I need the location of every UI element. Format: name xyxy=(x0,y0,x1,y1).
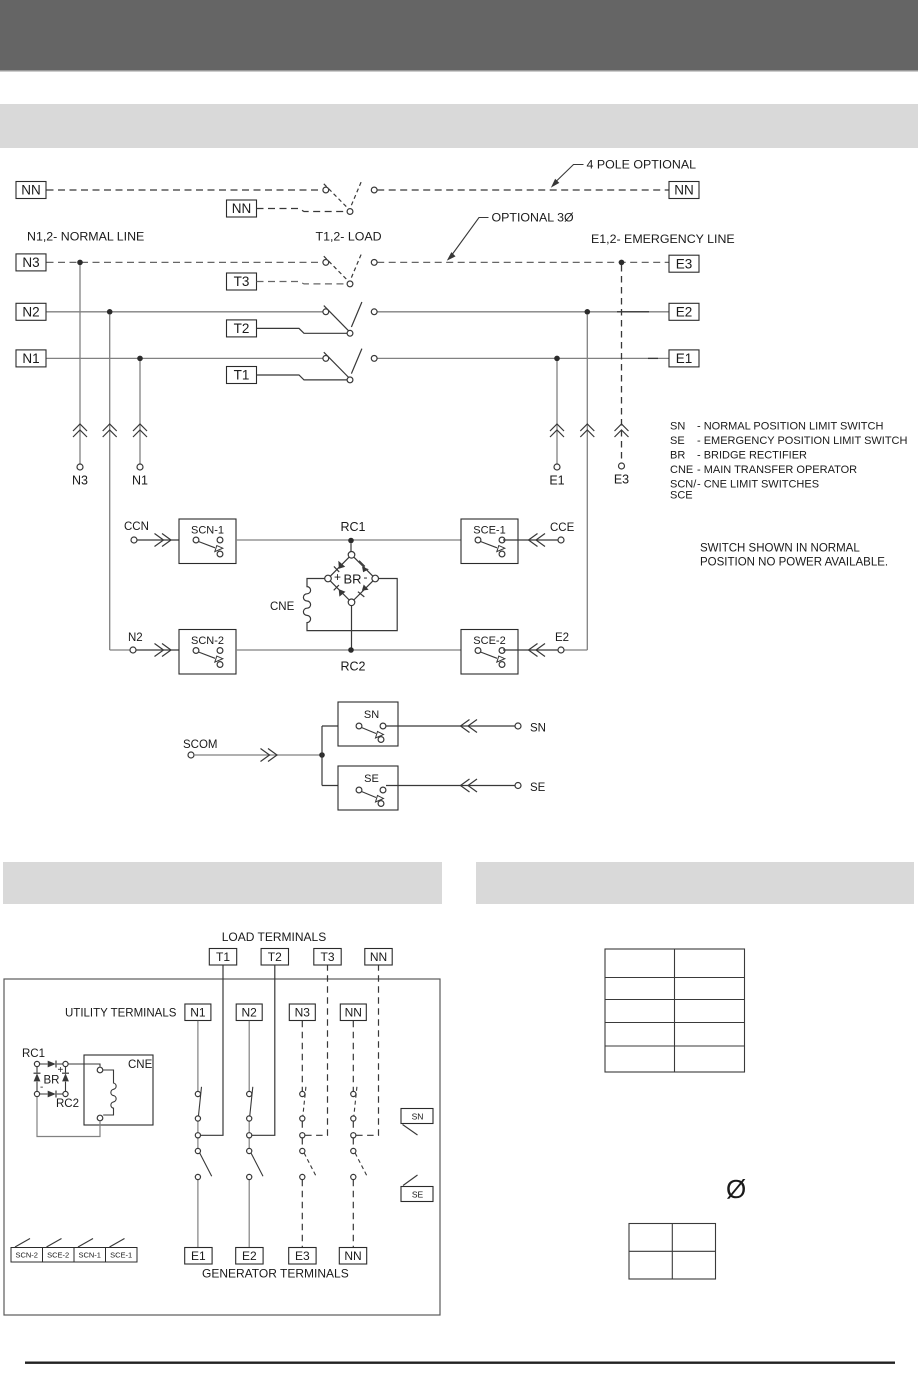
switch pole N2: blade xyxy=(324,306,349,332)
svg-text:NN: NN xyxy=(232,201,252,216)
svg-text:N2: N2 xyxy=(128,632,143,644)
svg-text:Ø: Ø xyxy=(726,1174,746,1204)
svg-text:E2: E2 xyxy=(242,1249,257,1263)
svg-text:RC2: RC2 xyxy=(340,660,365,674)
wire N2 load branch xyxy=(252,965,275,1135)
switch pole NN: blade xyxy=(324,184,349,210)
svg-text:NN: NN xyxy=(370,950,387,964)
svg-text:- MAIN TRANSFER OPERATOR: - MAIN TRANSFER OPERATOR xyxy=(697,464,857,476)
wire RC2 bus xyxy=(236,649,461,651)
leader OPTIONAL 3-phase xyxy=(448,211,574,260)
wire N1 utility drop xyxy=(197,1021,199,1091)
terminal NN (load) xyxy=(227,200,257,217)
svg-text:GENERATOR TERMINALS: GENERATOR TERMINALS xyxy=(202,1267,349,1281)
contact blade NN lower xyxy=(355,1153,367,1176)
contacts N2 xyxy=(247,1091,252,1179)
svg-text:E1: E1 xyxy=(191,1249,206,1263)
arrow N2 rail xyxy=(103,424,117,437)
terminal N2 utility xyxy=(236,1004,262,1021)
arrow SN xyxy=(461,720,478,733)
wire N3 load branch xyxy=(305,965,327,1135)
wire SCE-1 to CCE xyxy=(503,539,558,541)
svg-text:NN: NN xyxy=(674,183,694,198)
switch pole N2: moving contact xyxy=(347,330,353,336)
terminal T2 load xyxy=(261,949,288,966)
wire N2 utility drop xyxy=(248,1021,250,1091)
wire SE out xyxy=(386,785,515,787)
switch pole NN: fixed contact right xyxy=(371,187,377,193)
switch pole NN: moving contact xyxy=(347,209,353,215)
node N2 control terminal xyxy=(130,647,136,653)
node SCOM junction xyxy=(319,752,325,758)
terminal E2 (right N2 line) xyxy=(669,303,699,320)
wire T1 to moving contact xyxy=(257,375,348,380)
svg-text:SCE-2: SCE-2 xyxy=(47,1251,69,1260)
switch pole N2: fixed contact right xyxy=(371,309,377,315)
wire NN line right xyxy=(377,189,669,191)
node N1 terminal xyxy=(137,464,143,470)
svg-text:RC1: RC1 xyxy=(340,520,365,534)
node RC2 tap xyxy=(348,647,354,653)
terminal N2 (left N2 line) xyxy=(16,303,46,320)
node RC1 tap xyxy=(348,538,354,544)
arrow CCN xyxy=(155,534,172,547)
wire N2 segment xyxy=(248,1121,250,1148)
svg-text:CNE: CNE xyxy=(128,1059,153,1071)
node E1 terminal xyxy=(554,464,560,470)
wire SCOM xyxy=(194,754,322,756)
arrow N2 control xyxy=(155,644,172,657)
svg-text:SCE-2: SCE-2 xyxy=(473,635,505,647)
wire N2 line right xyxy=(377,311,669,313)
terminal T3 load xyxy=(314,949,341,966)
svg-text:SN: SN xyxy=(530,723,546,735)
legend text xyxy=(670,421,908,502)
svg-text:CNE: CNE xyxy=(270,601,295,613)
terminal N3 utility xyxy=(289,1004,315,1021)
node N3 tap xyxy=(77,260,83,266)
arrow E2 rail xyxy=(580,424,594,437)
switch pole N3: open blade slash xyxy=(351,253,362,278)
svg-text:T2: T2 xyxy=(234,321,250,336)
svg-text:T3: T3 xyxy=(234,274,250,289)
note switch shown in normal position xyxy=(700,543,888,569)
terminal E3 (right N3 line) xyxy=(669,255,699,272)
contact blade N2 lower xyxy=(251,1153,263,1176)
switch pole N2: fixed contact left xyxy=(323,309,329,315)
node SN terminal xyxy=(515,723,521,729)
svg-text:SE: SE xyxy=(412,1190,424,1200)
switch pole N1: fixed contact right xyxy=(371,356,377,362)
wire N3 line right xyxy=(377,261,669,263)
wire RC1 bus xyxy=(236,539,461,541)
contact blade NN upper xyxy=(354,1087,357,1116)
limit switch SE xyxy=(338,766,398,810)
svg-text:N1: N1 xyxy=(22,351,39,366)
svg-text:+: + xyxy=(334,570,341,584)
wire NN generator drop xyxy=(352,1180,354,1248)
svg-text:N3: N3 xyxy=(295,1005,311,1019)
svg-text:NN: NN xyxy=(345,1005,362,1019)
wire E1 dark segment xyxy=(648,357,658,359)
terminal E3 generator xyxy=(289,1248,316,1265)
limit switch SCN-2 contact (wiring view) xyxy=(11,1239,43,1263)
wire N1 feeder xyxy=(139,361,141,464)
wire SCE-2 to E2 xyxy=(503,649,558,651)
wire SCOM to SN/SE xyxy=(322,726,356,786)
switch pole N2: open blade slash xyxy=(351,302,362,327)
arrow E1 feeder xyxy=(550,424,564,437)
wire NN utility drop xyxy=(352,1021,354,1091)
contact blade N1 upper xyxy=(199,1087,202,1116)
node N2 tap xyxy=(107,309,113,315)
wire N1 segment xyxy=(197,1121,199,1148)
limit switch SCE-2 contact (wiring view) xyxy=(43,1239,75,1263)
limit switch SCE-1 xyxy=(461,519,518,564)
contact blade N3 lower xyxy=(304,1153,316,1176)
svg-text:SE: SE xyxy=(530,782,546,794)
coil CNE xyxy=(270,579,397,631)
limit switch SCN-2 xyxy=(179,630,236,675)
node CCN terminal xyxy=(131,537,137,543)
terminal E1 (right N1 line) xyxy=(669,350,699,367)
svg-text:-: - xyxy=(40,1082,43,1093)
wire N2 generator drop xyxy=(248,1180,250,1248)
terminal T1 load xyxy=(209,949,236,966)
node E2 control terminal xyxy=(558,647,564,653)
svg-text:T3: T3 xyxy=(320,950,334,964)
svg-text:N2: N2 xyxy=(242,1005,258,1019)
switch pole NN: fixed contact left xyxy=(323,187,329,193)
terminal NN (right NN line) xyxy=(669,182,699,199)
svg-text:N1: N1 xyxy=(132,474,148,488)
svg-text:SN: SN xyxy=(364,709,379,721)
node SCOM terminal xyxy=(188,752,194,758)
wire NN line left xyxy=(47,189,323,191)
wire N3 segment xyxy=(301,1121,303,1148)
svg-text:OPTIONAL 3Ø: OPTIONAL 3Ø xyxy=(492,211,575,225)
svg-text:NN: NN xyxy=(21,183,41,198)
svg-text:E3: E3 xyxy=(614,473,629,487)
bridge rectifier BR (wiring view) xyxy=(22,1048,79,1110)
contacts NN xyxy=(351,1091,356,1179)
leader 4 POLE OPTIONAL xyxy=(552,158,696,187)
wire E2 dark segment xyxy=(617,311,649,313)
table (5 rows) xyxy=(605,949,745,1072)
svg-text:BR: BR xyxy=(44,1075,60,1087)
wire T3 to moving contact xyxy=(257,282,348,284)
arrow CCE xyxy=(529,534,546,547)
svg-text:N3: N3 xyxy=(72,474,88,488)
terminal N1 utility xyxy=(185,1004,211,1021)
svg-text:T1: T1 xyxy=(234,368,250,383)
wire T2 to moving contact xyxy=(257,328,348,333)
contact blade N1 lower xyxy=(200,1153,212,1176)
terminal NN (left NN line) xyxy=(16,182,46,199)
wire N1 line right xyxy=(377,357,669,359)
wire SN out xyxy=(386,725,515,727)
limit switch SCE-2 xyxy=(461,630,518,675)
wire NN to moving contact xyxy=(257,209,348,212)
svg-text:T1: T1 xyxy=(216,950,230,964)
terminal NN load xyxy=(365,949,392,966)
contacts N3 xyxy=(300,1091,305,1179)
node N3 terminal xyxy=(77,464,83,470)
svg-text:SCN-2: SCN-2 xyxy=(15,1251,38,1260)
svg-text:- EMERGENCY POSITION LIMIT SWI: - EMERGENCY POSITION LIMIT SWITCH xyxy=(697,435,908,447)
switch pole N3: moving contact xyxy=(347,281,353,287)
terminal NN generator xyxy=(339,1248,366,1265)
node E3 tap xyxy=(619,260,625,266)
svg-text:N2: N2 xyxy=(22,305,39,320)
svg-text:T1,2- LOAD: T1,2- LOAD xyxy=(316,230,382,244)
arrow N3 feeder xyxy=(73,424,87,437)
enclosure outline xyxy=(4,979,440,1315)
svg-text:E2: E2 xyxy=(555,632,569,644)
wire N1 generator drop xyxy=(197,1180,199,1248)
svg-text:-: - xyxy=(364,570,368,584)
node SE terminal xyxy=(515,783,521,789)
wire E1 feeder xyxy=(556,361,558,464)
limit switch SCN-1 contact (wiring view) xyxy=(74,1239,106,1263)
node CCE terminal xyxy=(558,537,564,543)
svg-text:- BRIDGE RECTIFIER: - BRIDGE RECTIFIER xyxy=(697,450,807,462)
svg-text:SCN-1: SCN-1 xyxy=(191,525,224,537)
bridge rectifier BR xyxy=(325,552,379,606)
wire N3 line left xyxy=(47,261,323,263)
terminal T3 (load) xyxy=(227,273,257,290)
node E2 tap xyxy=(585,309,591,315)
contacts N1 xyxy=(195,1091,200,1179)
wire N2 to SCN-2 xyxy=(136,649,196,651)
limit switch SN (wiring view) xyxy=(401,1109,433,1136)
svg-text:SE: SE xyxy=(670,435,685,447)
terminal T2 (load) xyxy=(227,320,257,337)
svg-text:CCN: CCN xyxy=(124,521,149,533)
switch pole N1: moving contact xyxy=(347,377,353,383)
wire N2 line left xyxy=(47,311,323,313)
svg-text:BR: BR xyxy=(343,572,361,587)
svg-text:LOAD TERMINALS: LOAD TERMINALS xyxy=(222,930,326,944)
svg-text:SCN-2: SCN-2 xyxy=(191,635,224,647)
limit switch SCN-1 xyxy=(179,519,236,564)
svg-text:UTILITY TERMINALS: UTILITY TERMINALS xyxy=(65,1008,177,1020)
svg-text:E3: E3 xyxy=(295,1249,310,1263)
svg-text:E2: E2 xyxy=(676,305,693,320)
svg-text:POSITION NO POWER AVAILABLE.: POSITION NO POWER AVAILABLE. xyxy=(700,557,888,569)
terminal N3 (left N3 line) xyxy=(16,254,46,271)
svg-text:- CNE LIMIT SWITCHES: - CNE LIMIT SWITCHES xyxy=(697,479,819,491)
svg-text:RC1: RC1 xyxy=(22,1048,45,1060)
node E1 tap xyxy=(554,356,560,362)
svg-text:SN: SN xyxy=(412,1112,424,1122)
contact blade N3 upper xyxy=(303,1087,306,1116)
wire N3 generator drop xyxy=(301,1180,303,1248)
terminal E2 generator xyxy=(236,1248,263,1265)
arrow E3 feeder xyxy=(615,424,629,437)
svg-text:SN: SN xyxy=(670,421,685,433)
switch pole N3: blade xyxy=(324,256,349,282)
switch pole N1: blade xyxy=(324,352,349,378)
switch pole N1: open blade slash xyxy=(351,349,362,374)
wire E3 feeder xyxy=(621,265,623,463)
svg-text:CCE: CCE xyxy=(550,522,575,534)
limit switch SCE-1 contact (wiring view) xyxy=(106,1239,138,1263)
wire N2 rail xyxy=(110,314,131,650)
title bar xyxy=(0,104,918,148)
arrow SCOM xyxy=(261,749,278,762)
node N1 tap xyxy=(137,356,143,362)
svg-text:E3: E3 xyxy=(676,256,693,271)
svg-text:N1,2- NORMAL LINE: N1,2- NORMAL LINE xyxy=(27,230,144,244)
arrow SE xyxy=(461,779,478,792)
svg-text:T2: T2 xyxy=(268,950,282,964)
svg-text:NN: NN xyxy=(344,1249,361,1263)
arrow E2 control xyxy=(529,644,546,657)
operator coil CNE (wiring view) xyxy=(37,1055,153,1137)
wire NN load branch xyxy=(356,965,378,1135)
svg-text:SWITCH SHOWN IN NORMAL: SWITCH SHOWN IN NORMAL xyxy=(700,543,860,555)
wire CCN to SCN-1 xyxy=(137,539,196,541)
svg-text:N3: N3 xyxy=(22,255,39,270)
table (2x2) xyxy=(629,1224,716,1280)
wire bridge to RC2 xyxy=(351,606,353,648)
svg-text:E1: E1 xyxy=(549,474,564,488)
terminal N1 (left N1 line) xyxy=(16,350,46,367)
svg-text:CNE: CNE xyxy=(670,464,693,476)
svg-text:E1,2- EMERGENCY LINE: E1,2- EMERGENCY LINE xyxy=(591,232,735,246)
svg-text:SCN-1: SCN-1 xyxy=(78,1251,101,1260)
limit switch SN xyxy=(338,702,398,746)
arrow N1 feeder xyxy=(133,424,147,437)
svg-text:BR: BR xyxy=(670,450,685,462)
wire NN segment xyxy=(352,1121,354,1148)
svg-text:SCE-1: SCE-1 xyxy=(473,525,505,537)
terminal NN utility xyxy=(340,1004,366,1021)
section bar left xyxy=(3,862,442,904)
svg-text:N1: N1 xyxy=(190,1005,206,1019)
terminal E1 generator xyxy=(185,1248,212,1265)
limit switch SE (wiring view) xyxy=(401,1175,433,1202)
wire N1 line left xyxy=(47,357,323,359)
footer rule xyxy=(25,1362,895,1364)
switch pole N3: fixed contact right xyxy=(371,260,377,266)
terminal T1 (load) xyxy=(227,367,257,384)
svg-text:SCE: SCE xyxy=(670,490,693,502)
wire N3 feeder xyxy=(79,265,81,464)
svg-text:- NORMAL POSITION LIMIT SWITCH: - NORMAL POSITION LIMIT SWITCH xyxy=(697,421,883,433)
section bar right xyxy=(476,862,914,904)
wire N1 load branch xyxy=(201,965,223,1135)
svg-text:SCE-1: SCE-1 xyxy=(110,1251,132,1260)
wire E2 rail xyxy=(564,314,587,650)
switch pole N3: fixed contact left xyxy=(323,260,329,266)
node E3 terminal xyxy=(619,463,625,469)
svg-text:4 POLE OPTIONAL: 4 POLE OPTIONAL xyxy=(587,158,697,172)
wire N3 utility drop xyxy=(301,1021,303,1091)
contact blade N2 upper xyxy=(250,1087,253,1116)
svg-text:SCOM: SCOM xyxy=(183,739,218,751)
wire RC1 to bridge xyxy=(350,543,352,551)
switch pole NN: open blade slash xyxy=(351,180,362,205)
header bar xyxy=(0,0,918,70)
switch pole N1: fixed contact left xyxy=(323,356,329,362)
svg-text:E1: E1 xyxy=(676,351,693,366)
svg-text:SE: SE xyxy=(364,773,379,785)
svg-text:RC2: RC2 xyxy=(56,1098,79,1110)
